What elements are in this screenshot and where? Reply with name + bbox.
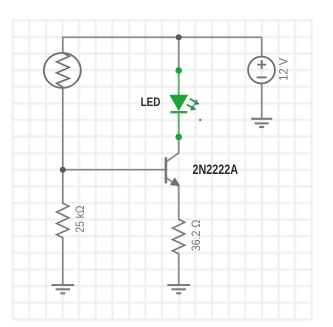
svg-text:12 V: 12 V: [276, 58, 290, 81]
svg-text:LED: LED: [141, 95, 161, 109]
svg-text:36.2 Ω: 36.2 Ω: [189, 220, 203, 252]
svg-text:2N2222A: 2N2222A: [193, 161, 239, 177]
svg-text:25 kΩ: 25 kΩ: [73, 206, 87, 233]
